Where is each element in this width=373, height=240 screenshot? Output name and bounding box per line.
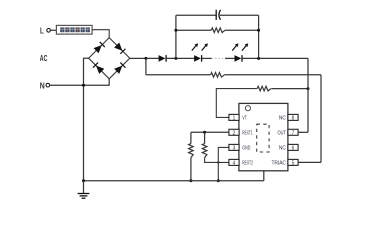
junction R4/rail [189, 179, 192, 182]
resistor R1 [211, 28, 225, 33]
LED LED1 [194, 55, 201, 62]
capacitor C1 [216, 10, 220, 20]
svg-text:L: L [40, 27, 44, 36]
dimmer box (可控硅调光器) [56, 25, 92, 34]
wire N to bridge bottom [50, 84, 110, 86]
wire riser right (cap/res branch) [258, 15, 260, 58]
wire R5 to pin 4 [205, 158, 229, 163]
junction REXT2/GND cross [217, 161, 219, 163]
wire bridge bottom vertex drop [108, 79, 110, 86]
resistor R2 [211, 73, 225, 78]
svg-text:NC: NC [279, 145, 286, 151]
junction OUT/R3 [307, 87, 310, 90]
resistor R5 top wire [204, 132, 206, 143]
wire OUT vertical [307, 58, 309, 132]
resistor R4 top wire [190, 132, 192, 143]
pin 5 TRIAC box [288, 159, 298, 166]
op-amp/driver IC U1 body [239, 103, 288, 170]
svg-text:1: 1 [233, 116, 236, 122]
junction parallel-RC left [174, 57, 177, 60]
svg-text:5: 5 [292, 161, 295, 167]
wire dashed to LED2 [225, 57, 235, 59]
svg-text:OUT: OUT [278, 130, 287, 136]
bridge diode D4 (bottom-right, points NE) [114, 66, 122, 74]
svg-text:GND: GND [242, 145, 250, 151]
svg-text:TRIAC: TRIAC [272, 160, 286, 166]
svg-text:2: 2 [233, 130, 236, 136]
pin 6 NC box [288, 144, 298, 151]
pin 1 VT box [229, 114, 239, 121]
wire OUT to pin 7 [298, 131, 308, 133]
wire LED1 to dashed [202, 57, 212, 59]
pin 2 REXT1 box [229, 129, 239, 136]
wire bridge right to D5 [130, 57, 159, 59]
wire left vertical to ground rail [83, 58, 85, 181]
wire cap branch left [176, 14, 216, 16]
LED LED2 [235, 55, 242, 62]
svg-text:7: 7 [292, 130, 295, 136]
wire D5 to LED1 [166, 57, 194, 59]
wire riser left (cap/res branch) [175, 15, 177, 58]
pin 3 GND box [229, 144, 239, 151]
bridge rectifier BR1 outline [89, 38, 130, 79]
ground rail [84, 180, 264, 182]
wire dimmer to bridge top [92, 30, 109, 38]
junction N/left-vertical [82, 84, 85, 87]
diode D5 [159, 55, 166, 62]
wire ground stem [83, 181, 85, 194]
wire LED2 to OUT corner [242, 57, 308, 59]
svg-text:VT: VT [242, 115, 247, 121]
wire cap branch right [220, 14, 259, 16]
pin 7 OUT box [288, 129, 298, 136]
terminal circle N [46, 83, 50, 87]
bridge diode D3 (bottom-left, points NW) [96, 66, 104, 74]
wire TRIAC to pin 5 [298, 161, 321, 163]
junction parallel-RC right [257, 57, 260, 60]
junction GND/rail [217, 179, 220, 182]
omitted-LEDs dashed wire [212, 57, 225, 59]
bridge diode D2 (top-right, points SE) [114, 43, 122, 51]
bridge diode D1 (left-top, points NE) [94, 45, 102, 53]
resistor R3 [257, 86, 271, 91]
IC pin-1 indicator circle [245, 106, 250, 111]
junction R5 top [203, 131, 206, 134]
wire bleeder left segment [146, 74, 211, 76]
resistor R5 [202, 144, 207, 158]
junction riser-right/R1 [257, 29, 260, 32]
svg-text:6: 6 [292, 146, 295, 152]
wire bleeder right segment [224, 74, 321, 76]
svg-text:8: 8 [292, 116, 295, 122]
wire GND pin 3 [218, 147, 229, 180]
svg-text:NC: NC [279, 115, 286, 121]
wire R3 to OUT vertical [271, 88, 308, 90]
terminal circle L [47, 29, 51, 33]
resistor R4 [189, 144, 194, 158]
svg-text:N: N [40, 81, 45, 90]
wire rail to IC pad [263, 152, 265, 181]
wire VT riser [216, 89, 257, 118]
svg-text:AC: AC [40, 54, 48, 63]
svg-text:REXT1: REXT1 [242, 130, 252, 136]
svg-text:REXT2: REXT2 [242, 160, 253, 166]
junction bleeder tap [144, 57, 147, 60]
svg-text:4: 4 [233, 161, 236, 167]
wire TRIAC vertical [320, 75, 322, 163]
wire pin2 left [191, 131, 229, 133]
wire bleeder down [145, 58, 147, 74]
pin 8 NC box [288, 114, 298, 121]
wire bridge left vertex stub [84, 57, 89, 59]
resistor R4 bottom wire [190, 158, 192, 181]
junction riser-left/R1 [174, 29, 177, 32]
IC thermal pad (dashed) [257, 124, 269, 152]
wire L to dimmer [50, 29, 56, 31]
svg-text:3: 3 [233, 146, 236, 152]
pin 4 REXT2 box [229, 159, 239, 166]
resistor R1 branch wires [176, 29, 211, 31]
ground symbol [78, 194, 90, 199]
junction rail left [82, 179, 85, 182]
